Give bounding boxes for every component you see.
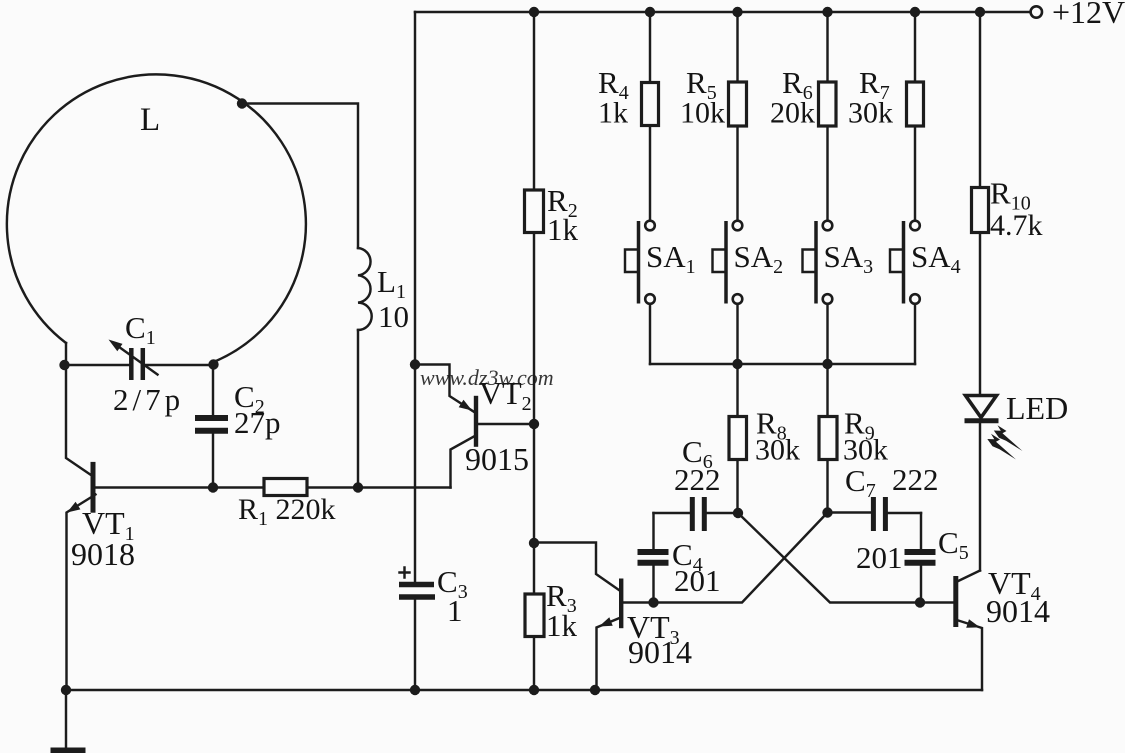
node tap on loop <box>237 98 247 108</box>
label C5 value 201 <box>856 540 903 575</box>
wire cross coupling node A to VT4 base <box>738 513 921 603</box>
label R2 <box>547 183 578 222</box>
label C4 value 201 <box>674 563 721 598</box>
label VT1 <box>82 505 135 545</box>
capacitor C1 (variable) <box>109 340 158 381</box>
node VT4 base C5 junction <box>915 597 925 607</box>
resistor R8 <box>729 364 747 513</box>
label SA4 <box>911 239 961 278</box>
switch SA3 <box>803 221 833 364</box>
node rail R4 <box>645 7 655 17</box>
node VT3 emitter rail <box>590 685 600 695</box>
inductor L1 <box>358 248 372 330</box>
wire bottom ground rail <box>66 689 982 691</box>
svg-text:30k: 30k <box>848 97 893 130</box>
wire C1 right <box>145 364 213 366</box>
svg-text:9014: 9014 <box>986 593 1050 629</box>
node L1 bottom on base wire <box>353 482 363 492</box>
transistor VT2 <box>415 365 534 488</box>
node rail R2 <box>529 7 539 17</box>
transistor VT1 <box>66 365 264 690</box>
ground <box>51 690 86 751</box>
svg-text:1: 1 <box>447 593 463 628</box>
label C1 <box>125 310 156 349</box>
resistor R5 <box>729 12 747 221</box>
label R10 <box>990 176 1031 215</box>
label L <box>140 102 160 138</box>
label VT2 value 9015 <box>465 441 529 477</box>
wire C1 left <box>66 364 129 366</box>
node VT3 base C4 junction <box>648 597 658 607</box>
resistor R4 <box>642 12 659 221</box>
label VT3 value 9014 <box>628 634 692 670</box>
label C3 <box>437 564 468 603</box>
label C4 <box>672 537 703 576</box>
label R9 <box>844 406 875 445</box>
transistor VT3 <box>534 513 828 691</box>
svg-text:10: 10 <box>378 299 409 334</box>
wire switch common rail <box>650 363 915 365</box>
label SA3 <box>824 239 874 278</box>
label R8 <box>756 406 787 445</box>
label SA2 <box>734 239 784 278</box>
terminal +12V open circle <box>1031 6 1042 17</box>
node SA2 R8 junction <box>732 359 742 369</box>
label R4 <box>598 65 629 104</box>
svg-text:10k: 10k <box>680 97 725 130</box>
node C1 right <box>208 359 218 369</box>
label C7 value 222 <box>892 462 939 497</box>
node VT1 emitter rail <box>61 685 71 695</box>
svg-text:1k: 1k <box>546 608 578 643</box>
svg-text:1k: 1k <box>598 97 628 130</box>
node VT2 base junction <box>529 419 539 429</box>
resistor R9 <box>819 364 837 513</box>
wire left vertical branch from top rail to C3 and bottom rail <box>414 12 416 690</box>
resistor R1 <box>264 479 307 496</box>
capacitor C4 <box>638 513 669 603</box>
label SA1 <box>646 239 696 278</box>
label VT1 value 9018 <box>71 536 135 572</box>
svg-text:+12V: +12V <box>1052 0 1125 30</box>
label C2 <box>234 379 265 418</box>
label R3 value 1k <box>546 608 578 643</box>
transistor VT4 <box>921 571 982 691</box>
wire R1 to VT2 collector <box>307 486 451 488</box>
svg-text:LED: LED <box>1006 390 1068 426</box>
wire C2 bottom <box>212 434 214 488</box>
svg-text:201: 201 <box>674 563 721 598</box>
label R5 <box>686 65 717 104</box>
svg-text:20k: 20k <box>770 97 815 130</box>
switch SA2 <box>713 221 743 364</box>
resistor R10 <box>972 12 989 396</box>
svg-text:30k: 30k <box>843 434 888 467</box>
label R4 value 1k <box>598 97 628 130</box>
label C2 value 27p <box>234 405 281 440</box>
node VT2 emitter tap <box>410 359 420 369</box>
resistor R6 <box>819 12 837 221</box>
node SA3 R9 junction <box>822 359 832 369</box>
label R9 value 30k <box>843 434 888 467</box>
label R8 value 30k <box>755 434 800 467</box>
svg-text:9018: 9018 <box>71 536 135 572</box>
label R7 value 30k <box>848 97 893 130</box>
label R6 value 20k <box>770 97 815 130</box>
capacitor C3 electrolytic <box>399 568 435 598</box>
svg-text:222: 222 <box>674 462 721 497</box>
svg-text:L: L <box>140 102 160 138</box>
label R10 value 4.7k <box>990 209 1043 242</box>
capacitor C6 <box>654 497 739 531</box>
node VT3 collector junction <box>529 538 539 548</box>
label R6 <box>782 65 813 104</box>
node B R9 C7 junction <box>822 507 832 517</box>
switch SA4 <box>890 221 920 364</box>
label C3 value 1 <box>447 593 463 628</box>
label VT4 value 9014 <box>986 593 1050 629</box>
label R7 <box>859 65 890 104</box>
watermark <box>420 365 554 390</box>
node C1 left <box>59 360 69 370</box>
label LED <box>1006 390 1068 426</box>
switch SA1 <box>625 221 655 364</box>
node A R8 C6 junction <box>733 508 743 518</box>
label +12V <box>1052 0 1125 30</box>
node C3 bottom rail <box>410 685 420 695</box>
resistor R3 <box>525 594 544 690</box>
label L1 value 10 <box>378 299 409 334</box>
node rail R7 <box>910 7 920 17</box>
capacitor C2 <box>195 418 228 431</box>
label R3 <box>546 578 577 617</box>
svg-text:1k: 1k <box>547 212 579 247</box>
svg-text:30k: 30k <box>755 434 800 467</box>
svg-text:9014: 9014 <box>628 634 692 670</box>
node rail R10 <box>975 7 985 17</box>
wire C2 top <box>212 365 214 416</box>
label C5 <box>938 525 969 564</box>
svg-text:201: 201 <box>856 540 903 575</box>
LED <box>965 396 1023 571</box>
label C6 value 222 <box>674 462 721 497</box>
node rail R6 <box>822 7 832 17</box>
node R3 bottom rail <box>529 685 539 695</box>
svg-text:9015: 9015 <box>465 441 529 477</box>
svg-text:R1 220k: R1 220k <box>238 493 336 530</box>
node rail R5 <box>732 7 742 17</box>
label R2 value 1k <box>547 212 579 247</box>
capacitor C7 <box>828 497 922 531</box>
label L1 <box>377 264 406 303</box>
node C2 bottom on base wire <box>208 482 218 492</box>
svg-text:4.7k: 4.7k <box>990 209 1043 242</box>
label VT2 <box>479 375 532 415</box>
label VT4 <box>988 565 1041 605</box>
svg-text:27p: 27p <box>234 405 281 440</box>
label C1 value 2/7p <box>113 382 184 417</box>
label R1 220k <box>238 493 336 530</box>
capacitor C5 <box>905 513 936 603</box>
wire +12V top rail <box>415 11 1031 13</box>
svg-text:2/7p: 2/7p <box>113 382 184 417</box>
label VT3 <box>627 609 680 649</box>
label C6 <box>682 434 713 473</box>
resistor R7 <box>907 12 924 221</box>
svg-text:222: 222 <box>892 462 939 497</box>
wire L1 bottom to base line <box>357 330 359 488</box>
label R5 value 10k <box>680 97 725 130</box>
loop antenna L (circle) <box>7 74 306 365</box>
wire loop tap to L1 <box>242 104 358 249</box>
label C7 <box>845 463 876 502</box>
resistor R2 <box>525 12 544 594</box>
